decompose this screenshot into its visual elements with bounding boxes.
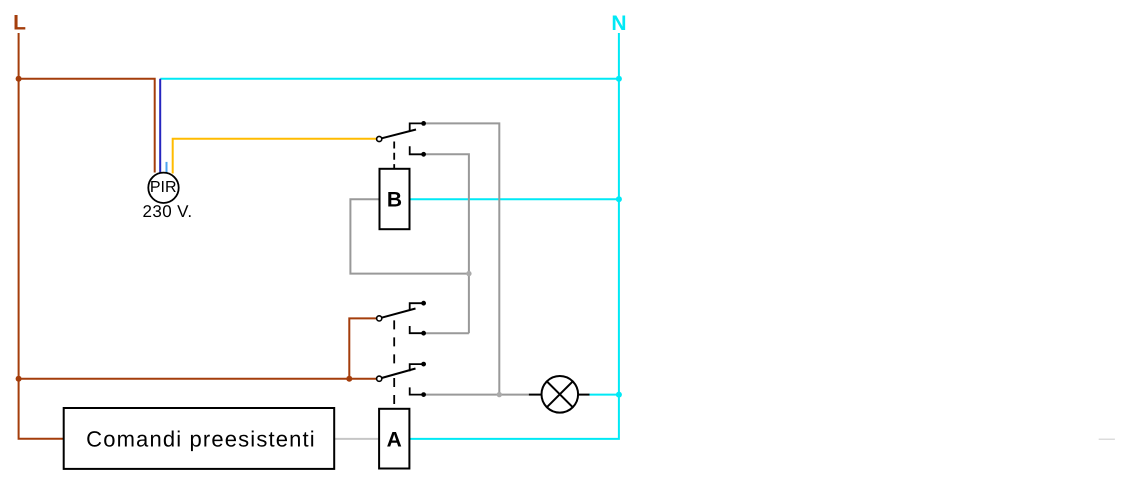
svg-text:L: L <box>13 12 26 35</box>
svg-text:B: B <box>387 189 402 212</box>
svg-text:A: A <box>387 429 402 452</box>
svg-text:230 V.: 230 V. <box>143 202 193 221</box>
svg-text:PIR: PIR <box>150 179 177 196</box>
svg-text:Comandi preesistenti: Comandi preesistenti <box>86 427 316 452</box>
svg-text:N: N <box>611 12 626 35</box>
